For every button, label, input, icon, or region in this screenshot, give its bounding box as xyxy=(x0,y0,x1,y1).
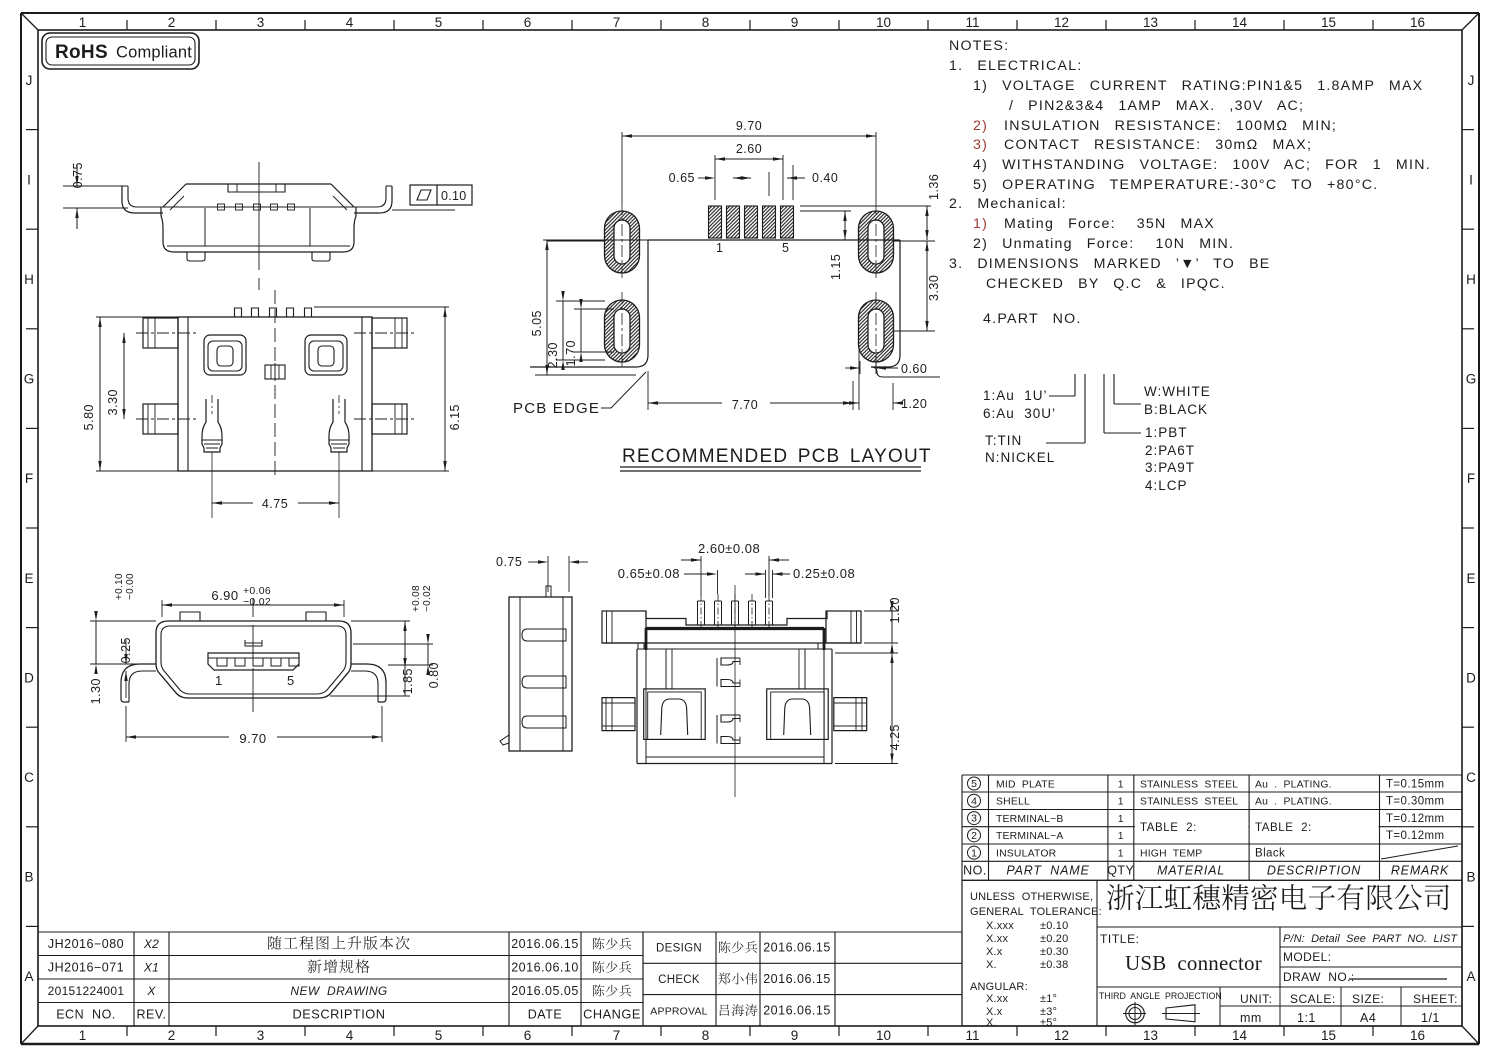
svg-text:陈少兵: 陈少兵 xyxy=(592,980,633,999)
svg-text:N:NICKEL: N:NICKEL xyxy=(985,450,1055,465)
svg-text:2016.06.10: 2016.06.10 xyxy=(511,960,579,974)
svg-text:X2: X2 xyxy=(143,937,159,951)
svg-text:ANGULAR:: ANGULAR: xyxy=(970,981,1028,993)
svg-text:4) WITHSTANDING VOLTAGE: 10: 4) WITHSTANDING VOLTAGE: 100V AC; FOR 1 … xyxy=(973,157,1431,173)
svg-text:2.60±0.08: 2.60±0.08 xyxy=(698,541,760,556)
svg-text:7: 7 xyxy=(613,1028,621,1043)
svg-text:E: E xyxy=(24,571,33,586)
svg-text:1: 1 xyxy=(716,241,723,255)
svg-text:0.25±0.08: 0.25±0.08 xyxy=(793,566,855,581)
svg-text:2016.05.05: 2016.05.05 xyxy=(511,984,579,998)
svg-text:X.x: X.x xyxy=(986,946,1003,958)
svg-text:9: 9 xyxy=(791,1028,799,1043)
svg-text:CHECK: CHECK xyxy=(658,974,700,986)
svg-text:3.30: 3.30 xyxy=(927,275,941,301)
svg-text:3: 3 xyxy=(257,1028,265,1043)
svg-text:REV.: REV. xyxy=(136,1007,166,1021)
svg-text:STAINLESS STEEL: STAINLESS STEEL xyxy=(1140,779,1238,790)
svg-text:D: D xyxy=(1466,670,1476,685)
svg-text:1: 1 xyxy=(1118,779,1124,790)
svg-text:UNLESS OTHERWISE,: UNLESS OTHERWISE, xyxy=(970,891,1093,903)
svg-text:mm: mm xyxy=(1240,1011,1262,1025)
svg-text:INSULATOR: INSULATOR xyxy=(996,848,1057,859)
svg-text:16: 16 xyxy=(1410,1028,1425,1043)
svg-text:RECOMMENDED PCB LAYOUT: RECOMMENDED PCB LAYOUT xyxy=(622,446,932,467)
svg-text:SIZE:: SIZE: xyxy=(1352,992,1385,1006)
svg-text:SHEET:: SHEET: xyxy=(1413,992,1458,1006)
svg-text:4: 4 xyxy=(971,795,977,807)
svg-text:15: 15 xyxy=(1321,1028,1336,1043)
svg-text:P/N: Detail See PART NO.: P/N: Detail See PART NO. LIST xyxy=(1283,933,1458,945)
svg-text:1): 1) xyxy=(973,216,988,232)
svg-text:Au . PLATING.: Au . PLATING. xyxy=(1255,779,1332,790)
svg-text:14: 14 xyxy=(1232,1028,1248,1043)
svg-text:X: X xyxy=(146,984,156,998)
svg-text:E: E xyxy=(1466,571,1475,586)
svg-text:5: 5 xyxy=(971,778,977,790)
svg-text:6.15: 6.15 xyxy=(448,404,462,430)
svg-text:12: 12 xyxy=(1054,15,1069,30)
svg-text:±0.10: ±0.10 xyxy=(1040,920,1068,932)
svg-text:6:Au 30U’: 6:Au 30U’ xyxy=(983,406,1056,421)
svg-text:JH2016−080: JH2016−080 xyxy=(48,937,124,951)
svg-text:1:1: 1:1 xyxy=(1297,1011,1316,1025)
svg-text:2016.06.15: 2016.06.15 xyxy=(763,1003,831,1017)
svg-text:2: 2 xyxy=(971,830,977,842)
svg-text:G: G xyxy=(24,372,35,387)
svg-text:TITLE:: TITLE: xyxy=(1100,932,1140,946)
svg-text:JH2016−071: JH2016−071 xyxy=(48,960,124,974)
svg-text:CONTACT RESISTANCE: 30mΩ MA: CONTACT RESISTANCE: 30mΩ MAX; xyxy=(1004,137,1312,153)
svg-text:B: B xyxy=(1466,870,1475,885)
svg-text:CHECKED BY Q.C & IPQC.: CHECKED BY Q.C & IPQC. xyxy=(986,276,1226,292)
svg-text:3: 3 xyxy=(257,15,265,30)
svg-text:15: 15 xyxy=(1321,15,1336,30)
svg-text:3:PA9T: 3:PA9T xyxy=(1145,460,1195,475)
svg-text:UNIT:: UNIT: xyxy=(1240,992,1273,1006)
svg-text:CHANGE: CHANGE xyxy=(583,1006,641,1021)
svg-text:2.60: 2.60 xyxy=(736,142,762,156)
svg-text:MID PLATE: MID PLATE xyxy=(996,779,1055,790)
svg-text:4.25: 4.25 xyxy=(888,724,902,750)
svg-text:THIRD ANGLE PROJECTION: THIRD ANGLE PROJECTION xyxy=(1099,991,1222,1001)
svg-text:NO.: NO. xyxy=(963,864,987,878)
svg-text:MODEL:: MODEL: xyxy=(1283,950,1331,964)
svg-text:C: C xyxy=(24,770,34,785)
svg-text:T=0.12mm: T=0.12mm xyxy=(1386,813,1444,825)
svg-text:−0.00: −0.00 xyxy=(125,573,136,600)
svg-text:4:LCP: 4:LCP xyxy=(1145,478,1188,493)
svg-text:随工程图上升版本次: 随工程图上升版本次 xyxy=(267,932,411,953)
svg-text:3. DIMENSIONS MARKED ’▼’ T: 3. DIMENSIONS MARKED ’▼’ TO BE xyxy=(949,256,1271,272)
svg-text:±0.38: ±0.38 xyxy=(1040,959,1068,971)
svg-text:+0.08: +0.08 xyxy=(411,585,422,612)
svg-text:9.70: 9.70 xyxy=(736,119,762,133)
svg-text:0.75: 0.75 xyxy=(496,555,522,569)
svg-text:Compliant: Compliant xyxy=(116,44,192,62)
svg-text:新增规格: 新增规格 xyxy=(307,956,371,977)
svg-text:J: J xyxy=(26,73,33,88)
svg-text:DESIGN: DESIGN xyxy=(656,943,702,955)
svg-text:2016.06.15: 2016.06.15 xyxy=(763,941,831,955)
svg-text:T=0.15mm: T=0.15mm xyxy=(1386,778,1444,790)
svg-text:1:Au 1U’: 1:Au 1U’ xyxy=(983,388,1048,403)
svg-text:1: 1 xyxy=(79,15,87,30)
svg-text:TERMINAL−A: TERMINAL−A xyxy=(996,831,1064,842)
svg-text:G: G xyxy=(1466,372,1477,387)
svg-text:1.36: 1.36 xyxy=(927,174,941,200)
svg-text:T:TIN: T:TIN xyxy=(985,433,1022,448)
svg-text:陈少兵: 陈少兵 xyxy=(718,937,759,956)
svg-text:9: 9 xyxy=(791,15,799,30)
svg-text:1.20: 1.20 xyxy=(888,597,902,623)
svg-text:C: C xyxy=(1466,770,1476,785)
svg-text:B: B xyxy=(24,870,33,885)
svg-text:3: 3 xyxy=(971,813,977,825)
svg-text:TABLE 2:: TABLE 2: xyxy=(1255,822,1312,834)
svg-text:NOTES:: NOTES: xyxy=(949,38,1009,54)
svg-text:H: H xyxy=(24,272,34,287)
svg-text:HIGH TEMP: HIGH TEMP xyxy=(1140,848,1202,859)
svg-text:USB connector: USB connector xyxy=(1125,951,1262,975)
svg-text:陈少兵: 陈少兵 xyxy=(592,957,633,976)
svg-text:+0.10: +0.10 xyxy=(114,573,125,600)
svg-text:11: 11 xyxy=(965,1028,979,1043)
svg-text:1.85: 1.85 xyxy=(401,668,415,694)
svg-text:Black: Black xyxy=(1255,847,1285,859)
svg-text:7: 7 xyxy=(613,15,621,30)
svg-text:PCB EDGE: PCB EDGE xyxy=(513,400,600,417)
svg-text:2: 2 xyxy=(168,1028,176,1043)
svg-text:1: 1 xyxy=(1118,797,1124,808)
svg-text:TABLE 2:: TABLE 2: xyxy=(1140,822,1197,834)
svg-text:陈少兵: 陈少兵 xyxy=(592,933,633,952)
svg-text:8: 8 xyxy=(702,15,710,30)
svg-text:A4: A4 xyxy=(1360,1011,1376,1025)
svg-text:郑小伟: 郑小伟 xyxy=(718,968,759,987)
svg-text:16: 16 xyxy=(1410,15,1425,30)
svg-text:±5°: ±5° xyxy=(1040,1017,1057,1029)
svg-text:0.65±0.08: 0.65±0.08 xyxy=(618,566,680,581)
svg-text:±0.30: ±0.30 xyxy=(1040,946,1068,958)
svg-text:2. Mechanical:: 2. Mechanical: xyxy=(949,196,1067,212)
svg-text:±0.20: ±0.20 xyxy=(1040,933,1068,945)
svg-text:1: 1 xyxy=(1118,831,1124,842)
svg-text:0.65: 0.65 xyxy=(669,171,695,185)
svg-text:6: 6 xyxy=(524,1028,532,1043)
svg-text:Au . PLATING.: Au . PLATING. xyxy=(1255,797,1332,808)
svg-text:H: H xyxy=(1466,272,1476,287)
svg-text:20151224001: 20151224001 xyxy=(48,984,125,998)
svg-text:B:BLACK: B:BLACK xyxy=(1144,402,1208,417)
svg-text:2: 2 xyxy=(168,15,176,30)
svg-text:1/1: 1/1 xyxy=(1421,1011,1440,1025)
svg-text:STAINLESS STEEL: STAINLESS STEEL xyxy=(1140,797,1238,808)
svg-text:SHELL: SHELL xyxy=(996,797,1030,808)
svg-text:1. ELECTRICAL:: 1. ELECTRICAL: xyxy=(949,58,1083,74)
svg-text:NEW DRAWING: NEW DRAWING xyxy=(290,984,387,998)
svg-text:−0.02: −0.02 xyxy=(422,585,433,612)
svg-text:10: 10 xyxy=(876,15,891,30)
svg-text:浙江虹穗精密电子有限公司: 浙江虹穗精密电子有限公司 xyxy=(1106,876,1452,917)
svg-text:1: 1 xyxy=(79,1028,87,1043)
svg-text:1: 1 xyxy=(1118,848,1124,859)
svg-text:I: I xyxy=(27,172,31,187)
svg-text:I: I xyxy=(1469,172,1473,187)
svg-text:5: 5 xyxy=(782,241,789,255)
svg-text:4: 4 xyxy=(346,1028,354,1043)
svg-text:5: 5 xyxy=(435,15,443,30)
svg-text:W:WHITE: W:WHITE xyxy=(1144,384,1211,399)
svg-text:13: 13 xyxy=(1143,1028,1158,1043)
svg-text:DRAW NO.:: DRAW NO.: xyxy=(1283,970,1355,984)
svg-text:0.10: 0.10 xyxy=(441,189,467,203)
svg-text:X.xx: X.xx xyxy=(986,993,1008,1005)
svg-text:T=0.30mm: T=0.30mm xyxy=(1386,796,1444,808)
svg-text:INSULATION RESISTANCE: 100MΩ: INSULATION RESISTANCE: 100MΩ MIN; xyxy=(1004,118,1337,134)
svg-text:2.30: 2.30 xyxy=(546,342,560,368)
svg-text:X.: X. xyxy=(986,1017,997,1029)
svg-text:A: A xyxy=(24,969,33,984)
svg-text:2:PA6T: 2:PA6T xyxy=(1145,443,1195,458)
svg-text:5.80: 5.80 xyxy=(82,404,96,430)
svg-text:2): 2) xyxy=(973,118,988,134)
svg-text:0.60: 0.60 xyxy=(901,362,927,376)
svg-text:F: F xyxy=(25,471,33,486)
svg-text:吕海涛: 吕海涛 xyxy=(718,1000,759,1019)
svg-text:4.75: 4.75 xyxy=(262,497,288,511)
svg-text:1:PBT: 1:PBT xyxy=(1145,425,1188,440)
svg-text:5.05: 5.05 xyxy=(530,310,544,336)
svg-text:6.90: 6.90 xyxy=(211,588,238,603)
svg-text:3.30: 3.30 xyxy=(106,389,120,415)
svg-text:PART NAME: PART NAME xyxy=(1006,864,1089,878)
svg-text:0.75: 0.75 xyxy=(71,162,85,188)
svg-text:2016.06.15: 2016.06.15 xyxy=(763,972,831,986)
svg-text:DATE: DATE xyxy=(528,1007,562,1021)
svg-text:J: J xyxy=(1468,73,1475,88)
svg-text:2) Unmating Force: 10N MI: 2) Unmating Force: 10N MIN. xyxy=(973,236,1234,252)
svg-text:1: 1 xyxy=(215,673,222,688)
svg-text:X1: X1 xyxy=(143,960,159,974)
svg-text:4: 4 xyxy=(346,15,354,30)
svg-text:1.70: 1.70 xyxy=(564,340,578,366)
svg-text:2016.06.15: 2016.06.15 xyxy=(511,937,579,951)
svg-text:Mating Force: 35N MAX: Mating Force: 35N MAX xyxy=(1004,216,1215,232)
svg-text:1.20: 1.20 xyxy=(901,397,927,411)
svg-text:12: 12 xyxy=(1054,1028,1069,1043)
svg-text:1: 1 xyxy=(971,847,977,859)
svg-text:−0.02: −0.02 xyxy=(243,596,271,608)
svg-text:X.xx: X.xx xyxy=(986,933,1008,945)
svg-text:6: 6 xyxy=(524,15,532,30)
svg-text:0.40: 0.40 xyxy=(812,171,838,185)
svg-text:10: 10 xyxy=(876,1028,891,1043)
svg-text:DESCRIPTION: DESCRIPTION xyxy=(293,1006,386,1021)
svg-text:14: 14 xyxy=(1232,15,1248,30)
svg-text:3): 3) xyxy=(973,137,988,153)
svg-text:5: 5 xyxy=(287,673,294,688)
svg-text:4.PART NO.: 4.PART NO. xyxy=(983,311,1082,327)
svg-text:8: 8 xyxy=(702,1028,710,1043)
svg-text:APPROVAL: APPROVAL xyxy=(650,1005,707,1017)
svg-text:13: 13 xyxy=(1143,15,1158,30)
svg-text:ECN NO.: ECN NO. xyxy=(56,1007,116,1021)
svg-text:1.15: 1.15 xyxy=(829,254,843,280)
svg-text:F: F xyxy=(1467,471,1475,486)
svg-text:T=0.12mm: T=0.12mm xyxy=(1386,830,1444,842)
svg-text:±1°: ±1° xyxy=(1040,993,1057,1005)
svg-text:5) OPERATING TEMPERATURE:-30: 5) OPERATING TEMPERATURE:-30°C TO +80°C. xyxy=(973,177,1378,193)
svg-text:/ PIN2&3&4 1AMP MAX. ,30V: / PIN2&3&4 1AMP MAX. ,30V AC; xyxy=(1009,98,1304,114)
svg-text:TERMINAL−B: TERMINAL−B xyxy=(996,814,1064,825)
svg-text:7.70: 7.70 xyxy=(732,398,758,412)
svg-text:9.70: 9.70 xyxy=(239,731,266,746)
svg-text:X.xxx: X.xxx xyxy=(986,920,1014,932)
svg-text:D: D xyxy=(24,670,34,685)
svg-text:SCALE:: SCALE: xyxy=(1290,992,1336,1006)
svg-text:A: A xyxy=(1466,969,1475,984)
svg-text:11: 11 xyxy=(965,15,979,30)
svg-text:1.30: 1.30 xyxy=(89,678,103,704)
svg-text:5: 5 xyxy=(435,1028,443,1043)
svg-text:RoHS: RoHS xyxy=(55,42,108,63)
svg-text:X.: X. xyxy=(986,959,997,971)
svg-text:1: 1 xyxy=(1118,814,1124,825)
svg-text:GENERAL TOLERANCE:: GENERAL TOLERANCE: xyxy=(970,906,1102,918)
svg-text:1) VOLTAGE CURRENT RATING:P: 1) VOLTAGE CURRENT RATING:PIN1&5 1.8AMP … xyxy=(973,78,1423,94)
svg-text:0.80: 0.80 xyxy=(427,662,441,688)
